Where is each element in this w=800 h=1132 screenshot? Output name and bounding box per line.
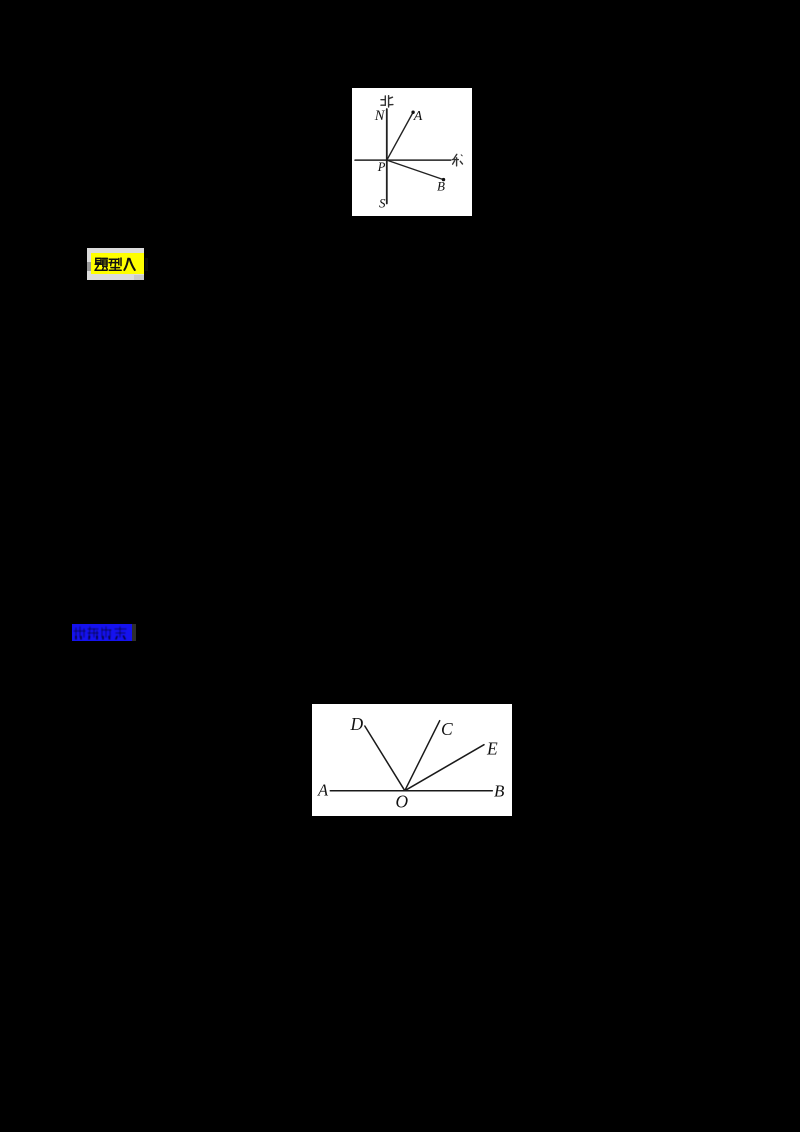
svg-text:N: N — [374, 108, 386, 124]
svg-text:S: S — [379, 196, 386, 211]
svg-text:B: B — [437, 179, 445, 194]
svg-text:E: E — [486, 739, 498, 759]
svg-text:B: B — [494, 782, 505, 801]
svg-text:C: C — [441, 719, 453, 739]
svg-text:A: A — [413, 109, 423, 124]
svg-text:O: O — [396, 792, 409, 812]
svg-text:A: A — [317, 781, 329, 800]
svg-text:D: D — [350, 714, 364, 734]
svg-text:P: P — [377, 160, 386, 174]
